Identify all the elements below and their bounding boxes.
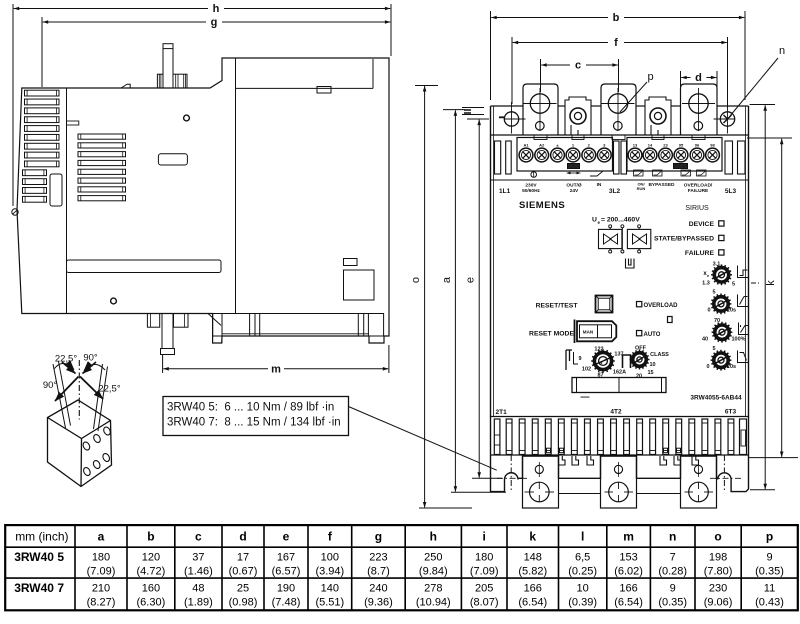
svg-text:240: 240 xyxy=(369,583,387,595)
svg-text:37: 37 xyxy=(192,552,204,564)
front view: top lug 2 xyxy=(601,84,636,135)
svg-text:230: 230 xyxy=(709,583,727,595)
svg-text:(0.35): (0.35) xyxy=(755,566,784,578)
svg-text:p: p xyxy=(766,530,773,544)
svg-text:100: 100 xyxy=(321,552,339,564)
front view: under-terminal symbols group1 xyxy=(531,172,537,178)
front view: thyristor leads xyxy=(609,228,611,230)
front view: control block A xyxy=(565,97,591,135)
side view: chimney left base block xyxy=(157,74,163,88)
front view: right dim k xyxy=(747,137,792,139)
side view: internal vertical front panel edge xyxy=(66,88,68,314)
svg-text:(1.89): (1.89) xyxy=(184,597,213,609)
svg-text:e: e xyxy=(283,530,290,544)
front view: bottom lug 2 xyxy=(601,456,637,508)
side view: main body outline xyxy=(17,58,389,343)
front view: small dim l xyxy=(462,107,484,109)
cube: bold arrow right xyxy=(80,377,103,400)
svg-text:(4.72): (4.72) xyxy=(137,566,166,578)
front view: label holder bar xyxy=(572,378,666,393)
front view: bottom lug 3 xyxy=(681,456,717,508)
svg-text:(6.30): (6.30) xyxy=(137,597,166,609)
svg-text:(6.54): (6.54) xyxy=(518,597,547,609)
svg-text:l: l xyxy=(581,530,584,544)
side view: front panel handle xyxy=(50,174,62,206)
side view: dim h end screw xyxy=(12,209,18,215)
front view: heatsink fins xyxy=(494,419,500,455)
torque note box xyxy=(163,397,349,436)
svg-text:f: f xyxy=(328,530,333,544)
front view: knob xe xyxy=(711,264,732,285)
front view: lug tabs at band bottom xyxy=(534,135,547,140)
side view: rail diagonal xyxy=(208,314,221,326)
cube: apex converge arrows xyxy=(62,362,76,374)
front view: control block B xyxy=(645,97,671,135)
svg-text:198: 198 xyxy=(709,552,727,564)
front view: right rail slots xyxy=(725,141,733,174)
side view: internal vertical line x=235 xyxy=(235,59,237,314)
front view: top band edges xyxy=(491,105,524,107)
front view: lug connect centerline xyxy=(559,493,601,495)
svg-text:d: d xyxy=(239,530,246,544)
front view: RESET/TEST button xyxy=(596,296,613,313)
svg-text:190: 190 xyxy=(277,583,295,595)
svg-text:48: 48 xyxy=(192,583,204,595)
svg-text:(9.36): (9.36) xyxy=(364,597,393,609)
side view: long bar handle xyxy=(67,260,222,273)
cube: right thin angle lines xyxy=(94,364,103,429)
svg-text:(0.35): (0.35) xyxy=(658,597,687,609)
svg-text:25: 25 xyxy=(237,583,249,595)
front view: center rail slots xyxy=(614,141,620,174)
front view: test-position icon xyxy=(566,350,572,370)
side view: rear recess lines xyxy=(236,87,374,89)
front view: terminal group 1 xyxy=(517,138,613,172)
svg-text:(8.7): (8.7) xyxy=(367,566,390,578)
svg-text:166: 166 xyxy=(524,583,542,595)
front view: U-bracket symbol xyxy=(626,259,635,269)
svg-text:i: i xyxy=(483,530,486,544)
front view: dimension b xyxy=(490,11,492,100)
svg-text:278: 278 xyxy=(424,583,442,595)
svg-text:(0.39): (0.39) xyxy=(568,597,597,609)
svg-text:h: h xyxy=(430,530,437,544)
svg-text:7: 7 xyxy=(670,552,676,564)
svg-text:11: 11 xyxy=(764,583,775,595)
side view: bottom feet xyxy=(147,314,159,328)
front view: thyristor box 2 xyxy=(627,229,650,248)
front view: bottom clips xyxy=(547,448,551,453)
svg-text:3RW40 7: 3RW40 7 xyxy=(14,581,64,595)
svg-text:g: g xyxy=(375,530,382,544)
side view: vent slots column 2 xyxy=(78,134,126,139)
front view: mounting screw right xyxy=(720,112,734,126)
svg-text:166: 166 xyxy=(619,583,637,595)
svg-text:160: 160 xyxy=(142,583,160,595)
svg-text:k: k xyxy=(529,530,536,544)
svg-text:(6.54): (6.54) xyxy=(614,597,643,609)
front view: knob start voltage xyxy=(712,322,733,343)
front view: inner side borders xyxy=(493,106,495,417)
svg-text:3RW40 5: 3RW40 5 xyxy=(14,550,64,564)
front view: top lug 3 xyxy=(681,84,718,135)
side view: top latch hook xyxy=(121,84,130,88)
svg-text:153: 153 xyxy=(619,552,637,564)
front view: dimension c xyxy=(540,59,542,92)
side view: small circle top xyxy=(184,115,190,121)
svg-text:(5.51): (5.51) xyxy=(315,597,344,609)
front view: current knob xyxy=(591,349,615,373)
front view: knob ramp-up time xyxy=(711,294,732,315)
svg-text:(5.82): (5.82) xyxy=(518,566,547,578)
cube: body xyxy=(48,400,112,487)
side view: small rounded rect xyxy=(158,154,187,165)
svg-text:(10.94): (10.94) xyxy=(416,597,451,609)
side view: small tab between columns xyxy=(67,121,79,125)
svg-text:120: 120 xyxy=(142,552,160,564)
svg-text:a: a xyxy=(98,530,105,544)
front view: knob ramp-down time xyxy=(711,350,732,371)
front view: CLASS knob xyxy=(630,350,650,370)
front view: left rail slots xyxy=(495,141,501,174)
svg-text:9: 9 xyxy=(766,552,772,564)
front view: foot notch centerlines xyxy=(510,455,512,492)
side view: chimney right base block xyxy=(173,74,187,88)
svg-text:m: m xyxy=(623,530,634,544)
dimension table xyxy=(5,525,798,610)
front view: small LED square xyxy=(668,317,673,323)
front view: right dim i xyxy=(750,104,775,106)
front view: device outline xyxy=(491,106,749,492)
svg-text:(0.43): (0.43) xyxy=(755,597,784,609)
svg-text:9: 9 xyxy=(670,583,676,595)
front view: top lug 1 xyxy=(523,84,558,135)
front view: terminal group 2 xyxy=(627,138,722,172)
svg-text:c: c xyxy=(195,530,202,544)
side view: DIN rail assembly xyxy=(213,314,384,337)
svg-text:140: 140 xyxy=(321,583,339,595)
svg-text:(7.09): (7.09) xyxy=(87,566,116,578)
svg-text:(8.07): (8.07) xyxy=(470,597,499,609)
svg-text:180: 180 xyxy=(475,552,493,564)
svg-text:210: 210 xyxy=(92,583,110,595)
front view: k centerline mark xyxy=(751,282,760,284)
svg-text:180: 180 xyxy=(92,552,110,564)
front view: RESET MODE slide switch xyxy=(577,321,616,341)
svg-text:(0.98): (0.98) xyxy=(229,597,258,609)
cube: bold arrow left xyxy=(55,377,79,402)
front view: left dim a xyxy=(443,109,465,111)
front view: dimension f xyxy=(511,37,513,104)
cube: axis dash-dot line xyxy=(78,360,80,420)
side view: small circle bottom xyxy=(111,298,117,304)
svg-text:(9.06): (9.06) xyxy=(704,597,733,609)
svg-text:223: 223 xyxy=(369,552,387,564)
svg-text:250: 250 xyxy=(424,552,442,564)
svg-text:205: 205 xyxy=(475,583,493,595)
front view: AUTO LED xyxy=(637,331,642,336)
side view: front vent slots column 1 xyxy=(25,90,60,96)
svg-text:(8.27): (8.27) xyxy=(87,597,116,609)
side view: rear bottom big rect xyxy=(344,270,375,300)
front view: dimension d xyxy=(680,71,682,96)
svg-text:10: 10 xyxy=(577,583,589,595)
svg-text:167: 167 xyxy=(277,552,295,564)
front view: left dim o xyxy=(415,85,438,87)
svg-text:b: b xyxy=(147,530,154,544)
side view: top chimney terminal xyxy=(163,44,173,88)
svg-text:n: n xyxy=(669,530,676,544)
svg-text:(0.67): (0.67) xyxy=(229,566,258,578)
cube: angle arcs xyxy=(54,363,74,369)
front view: mounting screw left xyxy=(504,112,518,126)
side view: rear bottom small rect xyxy=(344,259,358,266)
side view: dimension h xyxy=(12,4,14,206)
svg-text:(0.28): (0.28) xyxy=(658,566,687,578)
svg-text:(9.84): (9.84) xyxy=(419,566,448,578)
front view: separator line below terminals xyxy=(491,179,749,181)
svg-text:(6.57): (6.57) xyxy=(272,566,301,578)
cube: left thin angle lines xyxy=(53,364,66,428)
svg-text:(7.09): (7.09) xyxy=(470,566,499,578)
side view: rear clip small rect xyxy=(317,87,331,94)
front view: gate bracket symbol xyxy=(623,355,631,368)
side view: dimension g xyxy=(41,17,43,87)
torque note leader line xyxy=(349,407,497,471)
svg-text:mm (inch): mm (inch) xyxy=(15,530,68,544)
front view: panel bottom line xyxy=(491,416,749,418)
side view: bottom long foot xyxy=(162,314,173,349)
front view: bottom lug 1 xyxy=(523,456,559,508)
front view: OVERLOAD LED xyxy=(637,302,642,307)
svg-text:(3.94): (3.94) xyxy=(315,566,344,578)
svg-text:6,5: 6,5 xyxy=(575,552,590,564)
svg-text:148: 148 xyxy=(524,552,542,564)
front view: under-terminal symbols group2 xyxy=(634,170,644,176)
svg-text:(6.02): (6.02) xyxy=(614,566,643,578)
side view: dimension m xyxy=(162,354,164,373)
svg-text:(0.25): (0.25) xyxy=(568,566,597,578)
front view: thyristor box 1 xyxy=(599,229,622,248)
svg-text:17: 17 xyxy=(237,552,249,564)
cube: mounting holes xyxy=(82,441,91,451)
svg-text:(1.46): (1.46) xyxy=(184,566,213,578)
svg-text:(7.48): (7.48) xyxy=(272,597,301,609)
front view: left dim e xyxy=(467,118,489,120)
svg-text:(7.80): (7.80) xyxy=(704,566,733,578)
svg-text:o: o xyxy=(714,530,721,544)
